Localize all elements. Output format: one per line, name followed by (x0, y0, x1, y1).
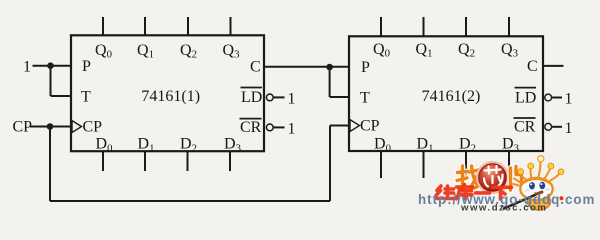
watermark logo: orange character PIAN (511, 167, 522, 191)
svg-text:LD: LD (515, 89, 536, 106)
wire D0(1) input stub (102, 151, 104, 171)
wire Q3(2) output stub (508, 17, 510, 36)
wire D1(2) input stub (423, 151, 425, 178)
wire CR(1) to 1 (274, 126, 285, 128)
wire D3(1) input stub (229, 151, 231, 171)
svg-text:T: T (360, 89, 370, 106)
svg-text:1: 1 (565, 91, 573, 108)
overline LD(1) (241, 87, 263, 89)
svg-text:74161(1): 74161(1) (141, 88, 200, 105)
watermark mascot dzsc doll (504, 156, 564, 210)
wire into T(1) (51, 95, 72, 97)
watermark logo: orange character ZHAO (457, 166, 479, 189)
wire Q1(2) output stub (423, 17, 425, 36)
svg-text:1: 1 (288, 121, 296, 138)
wire C(1) to P(2) (264, 66, 349, 68)
junction dot node A (1 to P and T) (47, 62, 54, 69)
junction dot clock net at CP(1) (47, 123, 54, 130)
svg-text:C: C (250, 59, 261, 76)
wire D2(2) input stub (465, 151, 467, 178)
wire D0(2) input stub (380, 151, 382, 178)
junction dot node B C(1)-P(2)-T(2) (326, 64, 333, 71)
wire Q3(1) output stub (230, 17, 232, 35)
watermark logo: red ball with XIN (477, 162, 508, 193)
wire D1(1) input stub (144, 151, 146, 171)
wire CR(2) to 1 (552, 126, 562, 128)
wire Q0(2) output stub (380, 17, 382, 36)
wire clock net bottom run (50, 200, 330, 202)
clock triangle CP(2) (350, 120, 360, 132)
wire LD(1) to 1 (274, 96, 285, 98)
inversion bubble CR(1) (266, 124, 273, 131)
wire LD(2) to 1 (552, 97, 562, 99)
svg-text:1: 1 (565, 120, 573, 137)
wire node B vertical C to T(2) (329, 67, 331, 97)
wire Q2(2) output stub (465, 17, 467, 36)
svg-text:LD: LD (241, 89, 262, 106)
wire D3(2) input stub (508, 151, 510, 178)
wire Q2(1) output stub (187, 17, 189, 35)
overline CR(1) (240, 118, 262, 120)
wire node A vertical P-T tie (50, 66, 52, 96)
wire from CP label to CP(1) (30, 126, 71, 128)
IC U1 74161(1) body (71, 35, 264, 151)
mascot pen stick (504, 193, 541, 209)
wire clock net down leg (49, 127, 51, 202)
svg-text:1: 1 (288, 91, 296, 108)
svg-text:CP: CP (360, 118, 380, 135)
svg-text:T: T (81, 88, 91, 105)
wire Q0(1) output stub (102, 17, 104, 35)
IC U2 74161(2) body (349, 36, 543, 151)
mascot tassel dot (560, 196, 564, 200)
overline CR(2) (514, 117, 536, 119)
inversion bubble LD(1) (266, 94, 273, 101)
svg-text:C: C (527, 58, 538, 75)
wire clock net up leg to CP(2) (329, 126, 331, 202)
svg-text:74161(2): 74161(2) (422, 88, 481, 105)
svg-text:CR: CR (240, 119, 262, 136)
wire CP(2) entry (330, 125, 349, 127)
wire into T(2) (330, 96, 349, 98)
svg-text:CP: CP (13, 118, 33, 135)
clock triangle CP(1) (72, 121, 82, 133)
watermark red text WEI KU YI XIA (437, 185, 512, 200)
svg-text:P: P (82, 58, 91, 75)
overline LD(2) (515, 87, 537, 89)
svg-text:CP: CP (83, 119, 103, 136)
wire Q1(1) output stub (144, 17, 146, 35)
svg-text:1: 1 (23, 58, 31, 75)
svg-text:www.dzsc.com: www.dzsc.com (460, 203, 547, 214)
wire C(2) output stub (543, 65, 564, 67)
wire D2(1) input stub (187, 151, 189, 171)
svg-text:CR: CR (514, 119, 536, 136)
inversion bubble LD(2) (545, 94, 552, 101)
wire from constant 1 to P(1) (33, 65, 72, 67)
svg-text:P: P (361, 59, 370, 76)
inversion bubble CR(2) (545, 123, 552, 130)
